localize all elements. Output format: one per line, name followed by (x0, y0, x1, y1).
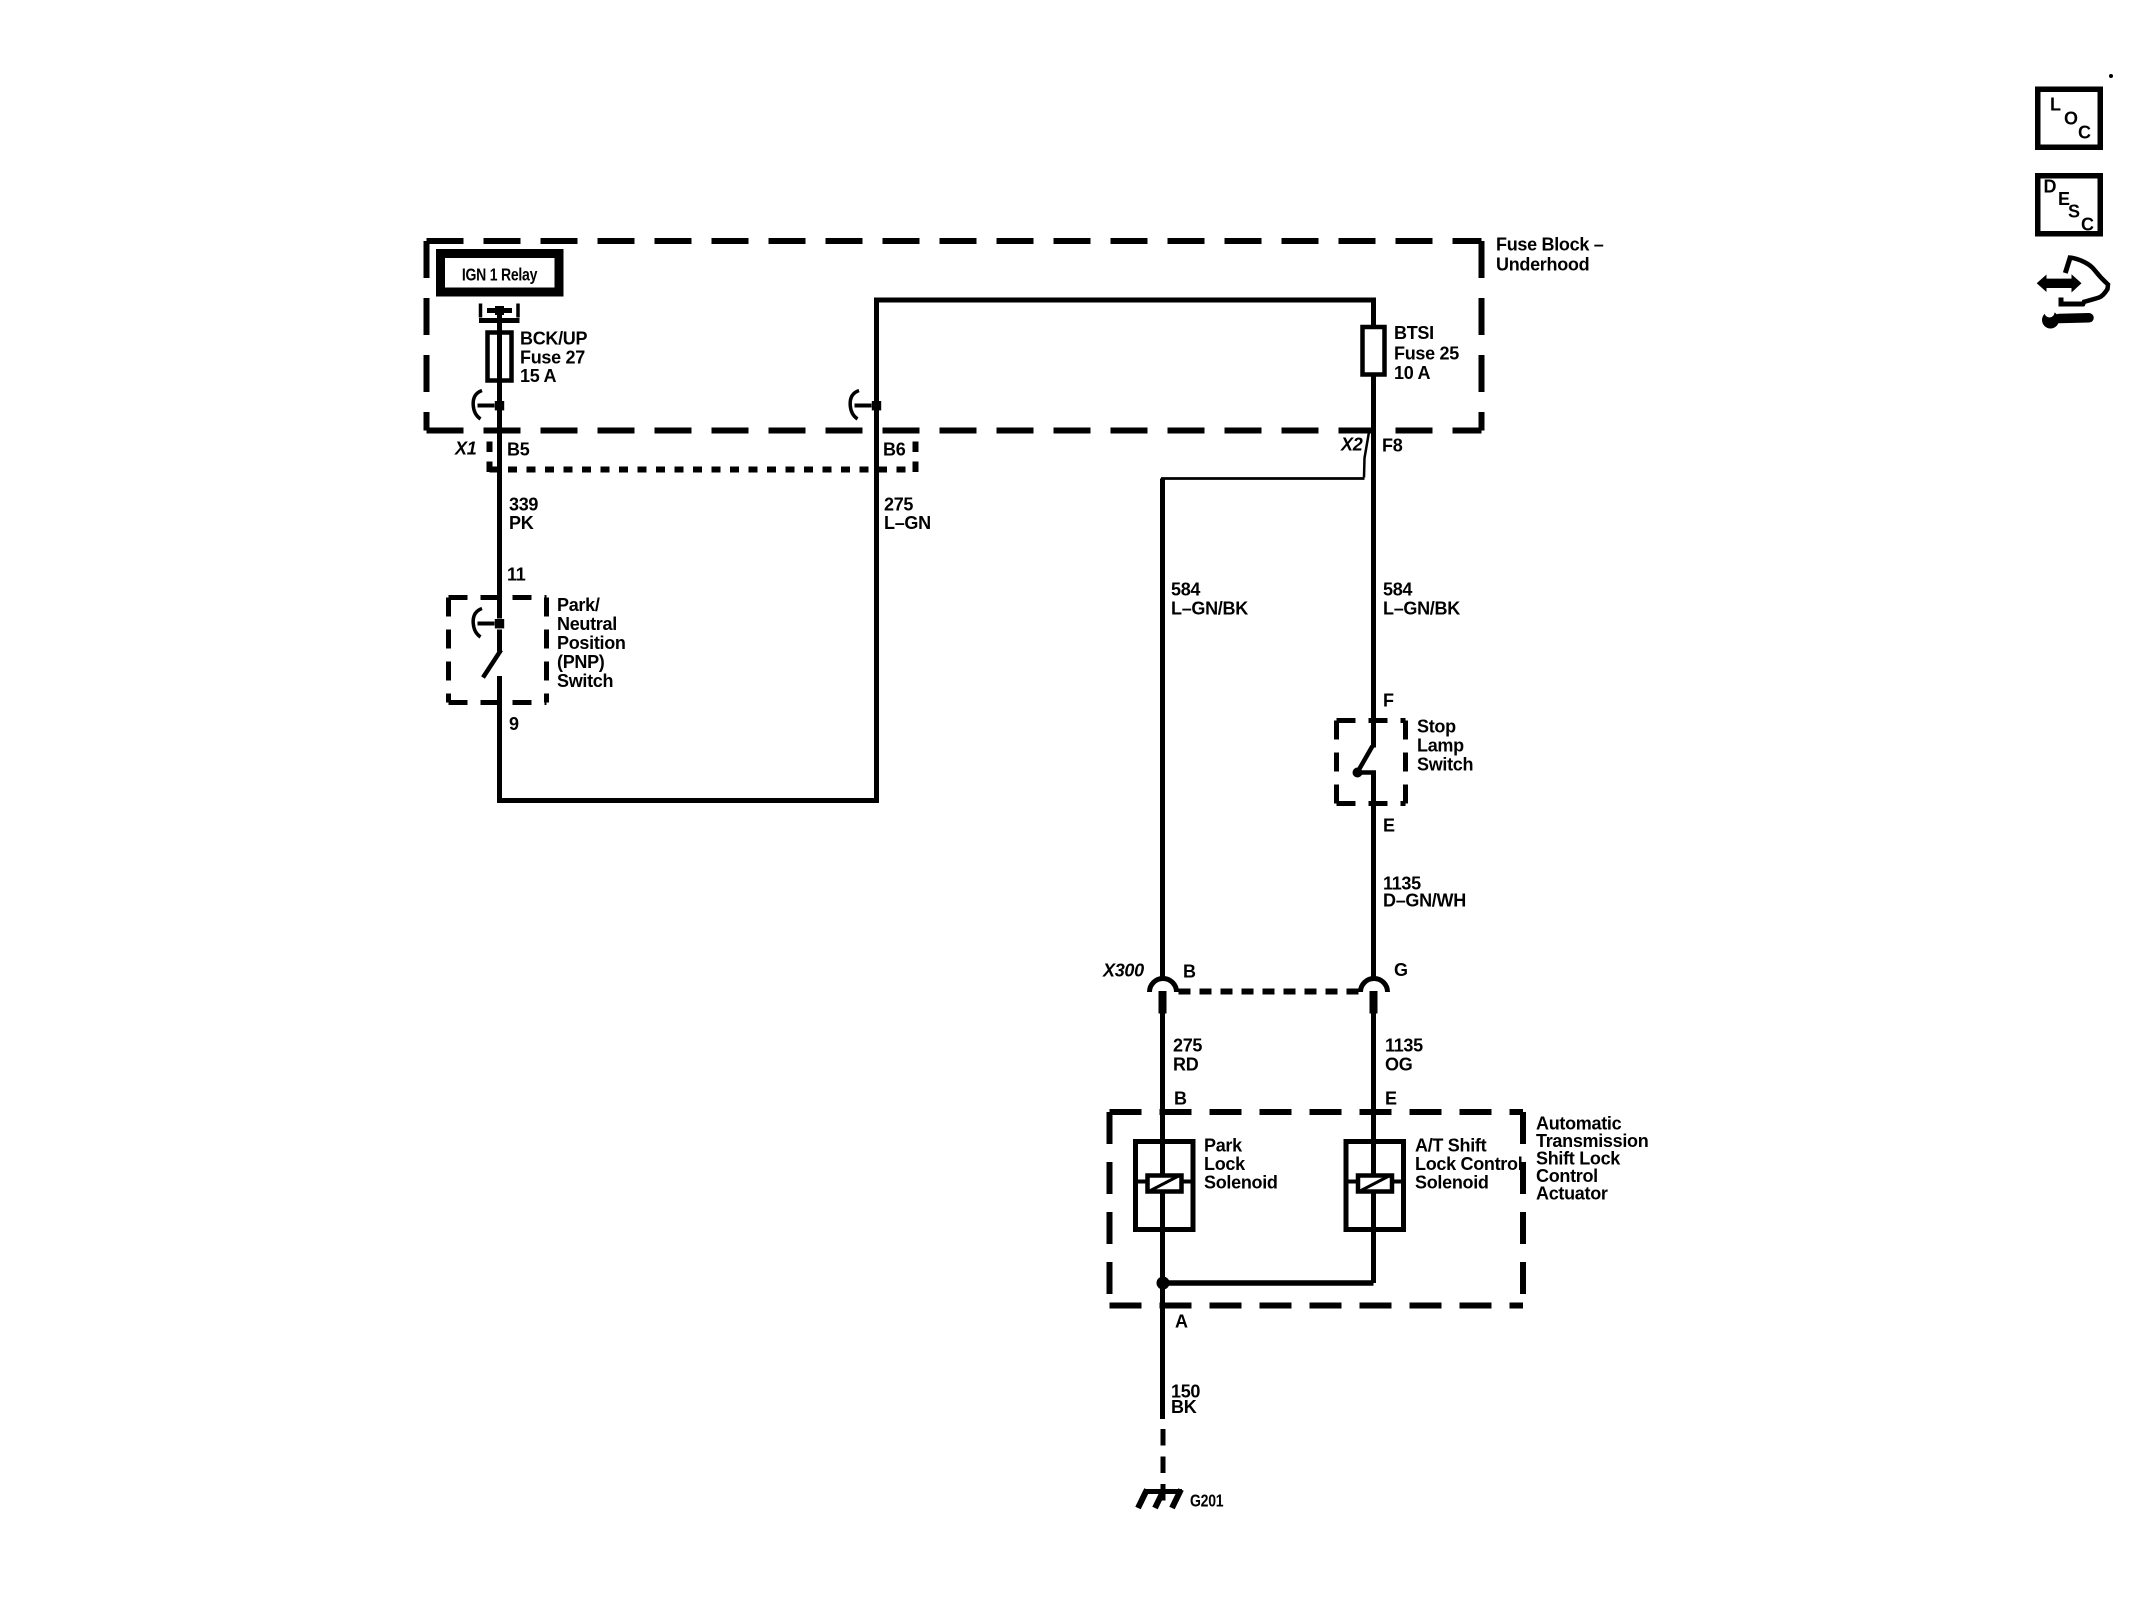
svg-text:X2: X2 (1340, 435, 1363, 455)
svg-text:D–GN/WH: D–GN/WH (1383, 891, 1466, 911)
svg-text:9: 9 (509, 714, 519, 734)
svg-text:B: B (1183, 962, 1196, 982)
svg-text:G: G (1394, 960, 1408, 980)
svg-text:L–GN/BK: L–GN/BK (1383, 599, 1460, 619)
svg-text:1135: 1135 (1385, 1036, 1423, 1056)
svg-text:Solenoid: Solenoid (1204, 1173, 1278, 1193)
svg-text:X300: X300 (1102, 961, 1144, 981)
svg-text:G201: G201 (1190, 1491, 1224, 1511)
svg-text:11: 11 (507, 565, 526, 585)
svg-text:Neutral: Neutral (557, 614, 617, 634)
svg-text:X1: X1 (454, 439, 477, 459)
svg-text:Switch: Switch (1417, 755, 1473, 775)
svg-text:PK: PK (509, 513, 534, 533)
svg-text:(PNP): (PNP) (557, 652, 605, 672)
svg-text:Actuator: Actuator (1536, 1184, 1608, 1204)
svg-text:Fuse 25: Fuse 25 (1394, 344, 1459, 364)
svg-text:L: L (2050, 95, 2061, 115)
svg-text:10 A: 10 A (1394, 363, 1430, 383)
svg-text:L–GN/BK: L–GN/BK (1171, 599, 1248, 619)
svg-text:B: B (1174, 1089, 1187, 1109)
svg-text:L–GN: L–GN (884, 513, 931, 533)
svg-text:Lock Control: Lock Control (1415, 1154, 1522, 1174)
svg-text:B6: B6 (883, 440, 906, 460)
svg-text:BK: BK (1171, 1397, 1197, 1417)
svg-text:Park/: Park/ (557, 595, 600, 615)
svg-text:Lamp: Lamp (1417, 736, 1464, 756)
svg-text:A/T Shift: A/T Shift (1415, 1136, 1487, 1156)
svg-text:C: C (2078, 123, 2091, 143)
svg-text:15 A: 15 A (520, 366, 556, 386)
svg-text:Solenoid: Solenoid (1415, 1173, 1489, 1193)
svg-text:Switch: Switch (557, 671, 613, 691)
svg-text:F: F (1383, 691, 1394, 711)
svg-text:IGN 1 Relay: IGN 1 Relay (462, 265, 538, 285)
svg-text:A: A (1175, 1312, 1188, 1332)
svg-text:Park: Park (1204, 1136, 1243, 1156)
svg-text:Fuse 27: Fuse 27 (520, 348, 585, 368)
svg-text:S: S (2068, 202, 2080, 222)
svg-text:Lock: Lock (1204, 1154, 1246, 1174)
svg-text:339: 339 (509, 495, 538, 515)
svg-text:O: O (2064, 109, 2078, 129)
svg-text:Underhood: Underhood (1496, 255, 1589, 275)
svg-text:Stop: Stop (1417, 717, 1456, 737)
svg-text:Fuse Block –: Fuse Block – (1496, 235, 1604, 255)
svg-text:BCK/UP: BCK/UP (520, 329, 587, 349)
svg-text:275: 275 (884, 495, 913, 515)
svg-text:584: 584 (1383, 580, 1412, 600)
svg-text:F8: F8 (1382, 436, 1403, 456)
svg-text:RD: RD (1173, 1055, 1199, 1075)
svg-text:B5: B5 (507, 440, 530, 460)
svg-text:BTSI: BTSI (1394, 323, 1434, 343)
svg-text:E: E (1385, 1089, 1397, 1109)
svg-text:Position: Position (557, 633, 626, 653)
svg-text:C: C (2081, 215, 2094, 235)
svg-text:D: D (2044, 177, 2057, 197)
svg-text:OG: OG (1385, 1055, 1412, 1075)
svg-text:275: 275 (1173, 1036, 1202, 1056)
svg-text:584: 584 (1171, 580, 1200, 600)
svg-text:E: E (1383, 816, 1395, 836)
